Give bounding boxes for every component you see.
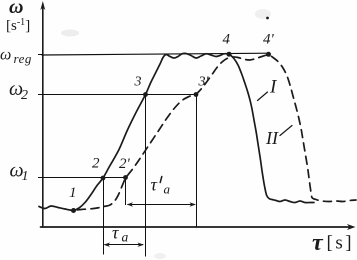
curve II dashed xyxy=(74,55,357,211)
vertical line from point 3 xyxy=(145,96,147,256)
svg-text:a: a xyxy=(122,230,129,245)
y-axis xyxy=(42,8,44,227)
svg-text:ω: ω xyxy=(0,47,11,64)
vertical line from point 2 xyxy=(103,179,105,254)
point 2 xyxy=(101,176,106,181)
omega_1 level line xyxy=(42,177,126,179)
svg-text:[s]: [s] xyxy=(327,233,355,254)
svg-text:τ: τ xyxy=(112,223,119,243)
leader line for label II xyxy=(280,126,292,136)
svg-text:ω: ω xyxy=(9,0,23,18)
faint scan smudge top-left xyxy=(61,30,79,37)
curve I solid xyxy=(39,53,314,210)
tick omega_reg xyxy=(39,54,43,56)
svg-text:4': 4' xyxy=(263,32,275,48)
svg-text:2': 2' xyxy=(119,156,131,172)
svg-text:a: a xyxy=(164,182,171,197)
vertical line from point 3' xyxy=(196,96,198,227)
svg-text:1: 1 xyxy=(69,185,77,201)
tau_a right arrowhead xyxy=(138,243,145,247)
svg-text:2: 2 xyxy=(21,88,28,103)
y-axis arrowhead xyxy=(40,1,45,10)
svg-text:3': 3' xyxy=(198,75,210,90)
speck top right xyxy=(266,17,269,20)
tau'_a arrow line xyxy=(128,204,195,206)
point 3 xyxy=(143,92,148,97)
svg-text:3: 3 xyxy=(134,75,142,90)
tick omega_2 xyxy=(39,94,43,96)
point 4' xyxy=(266,52,271,57)
leader line for label I xyxy=(258,92,268,101)
tau'_a right arrowhead xyxy=(190,202,197,206)
point 3' xyxy=(194,92,199,97)
faint scan smudge around top-right speck xyxy=(255,9,271,19)
svg-text:τ: τ xyxy=(151,175,158,195)
point 2' xyxy=(123,175,128,180)
omega_2 level line xyxy=(42,94,196,96)
tau_a arrow line xyxy=(105,244,143,246)
faint scan smudge bottom-right of tau_a xyxy=(154,253,166,259)
point 4 xyxy=(227,52,232,57)
svg-text:2: 2 xyxy=(92,156,100,172)
tau_a left arrowhead xyxy=(104,243,111,247)
tau'_a left arrowhead xyxy=(127,202,134,206)
svg-text:1: 1 xyxy=(22,169,29,184)
svg-text:II: II xyxy=(265,128,279,148)
omega_reg level line xyxy=(42,53,269,55)
x-axis xyxy=(41,226,350,228)
svg-text:reg: reg xyxy=(14,51,32,66)
svg-text:τ: τ xyxy=(312,230,324,256)
x-axis arrowhead xyxy=(347,224,356,230)
svg-text:4: 4 xyxy=(223,32,231,48)
tick omega_1 xyxy=(39,177,43,179)
point 1 xyxy=(71,208,76,213)
vertical line from point 2' xyxy=(125,179,127,205)
